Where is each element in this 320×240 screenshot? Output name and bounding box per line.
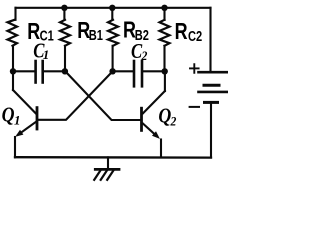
svg-text:C2: C2	[188, 27, 202, 44]
label RB1	[77, 18, 103, 44]
ground hatch 1	[94, 171, 100, 180]
label C2	[131, 41, 147, 64]
svg-text:R: R	[175, 19, 188, 45]
capacitor C1	[36, 61, 43, 83]
node RB2-C2 junction	[109, 68, 115, 74]
resistor RC2	[160, 20, 170, 46]
wire right rail top	[209, 8, 211, 72]
wire bottom rail	[15, 156, 211, 159]
battery plate short	[204, 84, 219, 87]
wire Q1 emitter to bottom rail	[14, 137, 16, 157]
wire left rail top stub	[14, 8, 16, 20]
wire Q2 emitter to bottom rail	[160, 140, 162, 158]
wire Q1 base to RB2 node	[38, 72, 112, 120]
wire C1 to RB1 node	[44, 70, 65, 72]
resistor RC1	[8, 20, 18, 46]
label RB2	[123, 18, 149, 44]
wire right rail bottom	[210, 102, 212, 157]
label Q1	[2, 104, 21, 127]
wire ground stub	[107, 157, 109, 168]
wire Q1 collector diagonal	[13, 90, 36, 114]
capacitor C2	[134, 61, 142, 86]
node top rail RC2	[161, 5, 167, 11]
battery plate long	[199, 91, 228, 94]
ground hatch 3	[107, 171, 113, 180]
wire RC2 bottom	[163, 46, 165, 72]
wire C2 to RC2 node	[143, 70, 164, 72]
arrowhead Q2 emitter	[152, 131, 160, 139]
svg-text:2: 2	[170, 114, 177, 129]
wire RB1 top stub	[63, 8, 65, 20]
ground bar	[95, 168, 119, 171]
svg-text:1: 1	[43, 47, 50, 62]
node top rail RB2	[109, 5, 115, 11]
wire RB2 bottom	[112, 46, 114, 72]
wire RC1 bottom to collector node	[12, 46, 14, 72]
ground hatch 2	[101, 171, 107, 180]
node top rail RB1	[61, 5, 67, 11]
wire collector node down	[12, 71, 14, 90]
label Q2	[158, 105, 176, 128]
transistor Q1 bar	[36, 108, 39, 129]
label minus	[190, 106, 199, 108]
svg-text:B1: B1	[89, 26, 103, 43]
wire Q2 collector diagonal	[143, 91, 165, 113]
label C1	[33, 40, 49, 63]
wire RB1 bottom	[64, 46, 66, 72]
node Q1 collector	[10, 68, 16, 74]
wire RB2 node to C2	[113, 70, 133, 72]
svg-text:2: 2	[141, 49, 148, 64]
node C1-RB1 junction	[62, 68, 68, 74]
svg-text:1: 1	[14, 112, 21, 127]
label RC2	[175, 19, 203, 45]
wire RC2 top stub	[163, 8, 165, 20]
wire collector node to C1	[13, 70, 34, 72]
arrowhead Q1 emitter	[15, 130, 23, 137]
label plus	[190, 64, 199, 73]
resistor RB2	[108, 20, 118, 46]
transistor Q2 bar	[140, 108, 143, 130]
battery plate long top	[199, 71, 228, 74]
wire top rail	[16, 7, 211, 9]
wire RB2 top stub	[111, 8, 113, 20]
svg-text:Q: Q	[2, 104, 15, 127]
wire Q2 collector down	[164, 71, 166, 91]
label RC1	[27, 19, 53, 45]
resistor RB1	[60, 20, 70, 46]
wire Q1 emitter	[18, 122, 36, 135]
svg-text:Q: Q	[158, 105, 171, 128]
battery plate short bottom	[205, 101, 218, 104]
node Q2 collector	[162, 68, 168, 74]
wire Q2 base to RB1 node	[66, 72, 141, 121]
wire Q2 emitter	[143, 124, 157, 136]
